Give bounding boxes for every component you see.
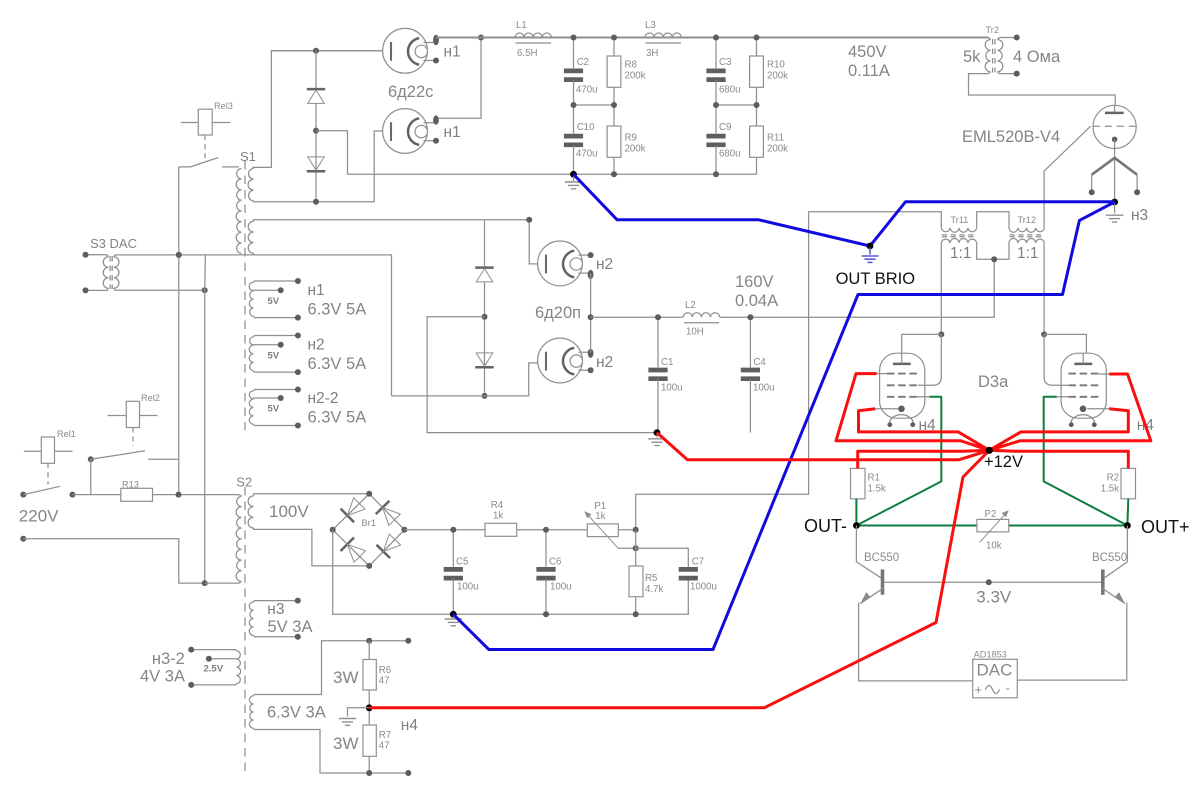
svg-text:3W: 3W [333, 734, 359, 753]
svg-text:C4: C4 [753, 357, 766, 368]
wire P1 output row [618, 529, 635, 531]
svg-text:н2: н2 [596, 256, 613, 273]
node OUT BRIO star ground [867, 243, 874, 250]
svg-text:47: 47 [379, 741, 390, 752]
node OUT+ [1124, 522, 1131, 529]
ground symbol OUT BRIO (blue) [869, 248, 871, 255]
resistor R6 47 3W [368, 641, 370, 660]
wire S1 HV2 bottom lead joining mains-side line [253, 253, 255, 255]
wire rectifier output row to lower 6д20п cathode [392, 363, 546, 396]
svg-text:1k: 1k [595, 511, 605, 522]
transformer S1 HV secondary 1 [248, 168, 253, 201]
wire red +12V from н4 node to star node [369, 450, 989, 708]
relay Rel2 [108, 393, 160, 446]
resistor R10 200k [756, 38, 758, 57]
wire red star to right D3a grid1 [989, 374, 1151, 450]
node S2 primary bottom junction [202, 580, 208, 586]
wire red star to R1 [858, 450, 990, 468]
wire Tr11 secondary left down to D3a left anode junction [940, 243, 942, 334]
anode bar of EML520B [1105, 112, 1124, 115]
transformer S1 filament winding н2-2 6.3V 5A with 5V tap [249, 391, 253, 425]
wire from diode junction to anode wire of lower tube [316, 131, 348, 175]
svg-text:3W: 3W [333, 668, 359, 687]
svg-text:R5: R5 [645, 573, 657, 584]
wire Q2 emitter down to DAC [1017, 603, 1127, 681]
node P1 output junction [633, 527, 639, 533]
wire cathode lead down to н3 node [1114, 139, 1116, 202]
ground symbol at н4 divider [348, 708, 370, 717]
wire Tr2 secondary pins [997, 38, 1016, 40]
resistor R4 1k [485, 523, 517, 536]
wire R13 to S2 primary [153, 494, 239, 496]
wire green R2 bottom to OUT+ [1126, 499, 1129, 526]
svg-text:S3 DAC: S3 DAC [90, 236, 137, 251]
svg-text:R8: R8 [625, 60, 637, 71]
wire audio input from P1 wiper box up to Tr11 [636, 212, 942, 530]
svg-text:220V: 220V [19, 507, 59, 526]
svg-text:C2: C2 [577, 57, 589, 68]
heater Y of EML520B [1092, 158, 1137, 175]
svg-text:6.5H: 6.5H [517, 48, 537, 59]
wire g3 stub to green output right D3a [1057, 396, 1069, 398]
node junction on cathode feed at diode column [313, 48, 319, 54]
svg-text:R1: R1 [868, 473, 880, 484]
wire connecting both 6д20п plates to 160V line [590, 273, 592, 352]
wire g3 stub to green output left D3a [917, 396, 930, 398]
transformer S2 winding н3 5V 3A [249, 602, 253, 636]
svg-text:S1: S1 [240, 149, 256, 164]
svg-text:6.3V 5A: 6.3V 5A [308, 301, 367, 319]
wire R6 to R7 through н4 node [368, 690, 370, 725]
svg-text:AD1853: AD1853 [974, 650, 1007, 660]
capacitor C7 1000u [679, 567, 698, 572]
svg-text:6д20п: 6д20п [535, 304, 581, 322]
svg-text:10H: 10H [686, 327, 704, 338]
svg-text:R4: R4 [491, 500, 504, 511]
wire Tr2 primary bottom to EML anode [969, 72, 1116, 106]
wire cathode stub left D3a [875, 408, 898, 410]
grid dashed line of EML520B [1093, 125, 1137, 127]
wire red from 160V ground node to star node [657, 433, 989, 460]
capacitor C6 100u [545, 530, 547, 567]
svg-text:R7: R7 [379, 730, 391, 741]
wire anode tap into right D3a [1044, 334, 1086, 353]
svg-text:3H: 3H [646, 48, 658, 59]
wire junction to ground row [427, 317, 657, 433]
svg-text:R9: R9 [625, 133, 637, 144]
svg-text:+12V: +12V [984, 453, 1023, 471]
wire riser from S1 HV winding to top rail [252, 51, 391, 168]
svg-text:н1: н1 [444, 44, 461, 61]
potentiometer P1 1k [587, 524, 618, 537]
svg-text:C5: C5 [456, 557, 468, 568]
node 160V takeoff [588, 314, 594, 320]
node P1 wiper junction [633, 545, 639, 551]
resistor R8 200k [613, 38, 615, 57]
resistor R13 [121, 488, 153, 501]
wire S1 HV1 bottom lead to rectifier and lower 6д22с cathode [254, 131, 392, 202]
wire 160V line after L2 to interstage center tap [720, 259, 995, 317]
svg-text:OUT+: OUT+ [1141, 517, 1190, 537]
svg-text:5V: 5V [268, 404, 280, 415]
svg-text:Tr2: Tr2 [986, 25, 999, 35]
svg-text:н3: н3 [267, 601, 284, 618]
svg-text:5V: 5V [268, 296, 280, 307]
svg-text:C6: C6 [549, 557, 561, 568]
node HV ground [570, 171, 577, 178]
wire cathode stub right D3a [1087, 408, 1109, 410]
switch S1 mains switch [179, 149, 256, 167]
diode D upper of 6д20п rectifier pair [484, 220, 486, 267]
transformer S2 winding 6.3V 3A [249, 696, 253, 729]
node н3 cathode ground [1111, 199, 1118, 206]
ground symbol HV filter [573, 174, 575, 181]
svg-text:OUT-: OUT- [804, 516, 847, 536]
inductor L3 3H [645, 33, 681, 38]
svg-text:0.11A: 0.11A [848, 62, 890, 80]
node junction at HV1 bottom lead [313, 199, 319, 205]
wire Rel2 contact down to mains line [90, 459, 92, 494]
resistor R1 1.5k [851, 468, 866, 498]
wire Tr11 top-right to Tr12 top-left bridge [977, 212, 1009, 228]
svg-text:R10: R10 [767, 60, 785, 71]
wire grid lead to Tr12 [1044, 126, 1091, 227]
wire P1 wiper tail [618, 547, 635, 549]
node R7 bottom junction and pin [368, 756, 370, 773]
wire base rail 3.3V [884, 581, 1101, 583]
svg-text:C7: C7 [692, 557, 704, 568]
wire 100V top lead to bridge [254, 494, 370, 496]
node 160V ground [654, 429, 661, 436]
wire wiper row to C7 [636, 548, 689, 567]
wire screen grid lead right D3a [1044, 334, 1068, 385]
svg-text:C3: C3 [719, 57, 731, 68]
wire green from right D3a g3 down to OUT+ [1044, 397, 1128, 526]
wire S1 primary bottom lead [179, 254, 242, 256]
wire Q1 emitter down to DAC [859, 603, 973, 681]
resistor R2 1.5k [1121, 468, 1136, 498]
wire 220V line to R13 [70, 492, 76, 498]
svg-text:н1: н1 [444, 124, 461, 141]
svg-text:6.3V 5A: 6.3V 5A [308, 355, 367, 373]
vacuum tube V4 6д20п (upper) [538, 241, 583, 286]
svg-text:5k: 5k [963, 48, 981, 66]
cathode dot of EML520B [1112, 137, 1118, 143]
node center tap [991, 256, 997, 262]
wire blue HV ground link from C10 ground to OUT BRIO ground [574, 174, 871, 246]
wire junction column to R5 [635, 530, 637, 566]
svg-text:S2: S2 [236, 475, 252, 490]
inductor L1 6.5H [515, 33, 551, 38]
svg-text:Rel3: Rel3 [214, 101, 233, 111]
vacuum tube V6 D3a (left) [880, 353, 925, 418]
svg-text:Br1: Br1 [362, 518, 376, 528]
svg-text:н1: н1 [308, 282, 325, 299]
transformer S2 core [244, 487, 246, 772]
svg-text:D3a: D3a [978, 373, 1009, 391]
svg-text:470u: 470u [576, 149, 598, 160]
svg-text:10k: 10k [986, 541, 1002, 552]
potentiometer P2 10k [977, 519, 1009, 532]
transformer S1 filament winding н2 6.3V 5A with 5V tap [249, 337, 253, 371]
svg-text:C10: C10 [577, 122, 595, 133]
svg-text:4.7k: 4.7k [645, 584, 663, 595]
svg-text:4 Ома: 4 Ома [1013, 48, 1061, 66]
wire top-left feed line to first 6д22с cathode [271, 50, 391, 52]
svg-text:450V: 450V [848, 43, 887, 61]
wire green R1 bottom to OUT- [855, 499, 857, 526]
svg-text:680u: 680u [719, 85, 741, 96]
svg-text:47: 47 [379, 676, 390, 687]
svg-text:Tr11: Tr11 [951, 215, 969, 225]
node anode junction right D3a [1041, 331, 1047, 337]
capacitor C3 680u [715, 38, 717, 69]
svg-text:DAC: DAC [977, 661, 1013, 680]
wire green P2 to OUT+ [1009, 525, 1128, 527]
wire Tr11/Tr12 bottom center tap [977, 243, 1009, 259]
node anode junction left D3a [938, 331, 944, 337]
svg-text:100u: 100u [661, 383, 683, 394]
svg-text:R2: R2 [1107, 473, 1119, 484]
transformer S1 filament winding н1 6.3V 5A with 5V tap [249, 282, 253, 316]
svg-text:160V: 160V [735, 273, 774, 291]
wire red star to left D3a grid1 [836, 374, 989, 451]
svg-text:0.04A: 0.04A [735, 292, 778, 310]
wire S3 secondary bottom lead to S2 feed bus [114, 288, 205, 290]
wire red star to left D3a cathode [859, 409, 990, 451]
transformer S2 primary [236, 496, 241, 581]
resistor R9 200k [613, 105, 615, 126]
vacuum tube V5 6д20п (lower) [538, 338, 583, 383]
wire 450V B+ rail [436, 37, 988, 39]
svg-text:C1: C1 [661, 357, 673, 368]
svg-text:R6: R6 [379, 665, 391, 676]
svg-text:н4: н4 [401, 717, 419, 734]
transformer S1 core [244, 161, 246, 430]
ground symbol at C5 [445, 619, 462, 626]
capacitor C9 680u [715, 105, 717, 134]
capacitor C4 100u [749, 317, 751, 367]
node OUT- [853, 522, 860, 529]
svg-text:BC550: BC550 [864, 552, 899, 564]
diode D lower of 6д20п rectifier pair [475, 366, 493, 369]
wire vertical bus x=205 down to S2 primary [204, 255, 207, 583]
node C5 ground (blue reference) [450, 611, 457, 618]
wire anode tap into left D3a [902, 334, 942, 353]
svg-text:н2-2: н2-2 [308, 390, 339, 407]
relay Rel1 [24, 429, 76, 485]
node junction between rectifier diodes [482, 314, 488, 320]
wire green from left D3a g3 down to OUT- [856, 397, 941, 526]
svg-text:н3: н3 [1131, 207, 1148, 224]
svg-text:6.3V 5A: 6.3V 5A [308, 409, 367, 427]
node R6 top junction and pin [366, 638, 372, 644]
svg-text:R13: R13 [122, 480, 139, 490]
wire red star to right D3a cathode [989, 409, 1128, 451]
transformer S1 HV secondary 2 [248, 221, 253, 253]
wire R4 to P1 [517, 529, 588, 531]
diode D lower (pointing down) [307, 170, 325, 173]
svg-text:200k: 200k [625, 144, 646, 155]
wire V2 anode pin up to 450V rail [438, 38, 481, 119]
svg-text:Rel1: Rel1 [57, 429, 76, 439]
node lower rectifier output [482, 393, 488, 399]
node н4 heater supply junction [366, 704, 373, 711]
switch Rel2 contact [88, 456, 94, 462]
wire control grid stub right D3a [1099, 373, 1110, 375]
wire red star to R2 [989, 450, 1128, 468]
wire blue from н3 node to C5 ground [453, 202, 1114, 650]
switch Rel1 contact on 220V line [20, 492, 26, 498]
wire blue from OUT BRIO ground to н3 node [870, 202, 1115, 246]
svg-text:н3-2: н3-2 [152, 650, 185, 668]
node junction left bus at R13 row [176, 492, 182, 498]
svg-text:5V: 5V [268, 350, 280, 361]
wire 6.3V top lead up to R6 row [254, 641, 409, 696]
wire middle junction row C3/C9/R10/R11 [716, 104, 757, 106]
resistor R7 47 3W [363, 725, 376, 756]
svg-text:100u: 100u [457, 582, 479, 593]
resistor R11 200k [756, 105, 758, 126]
svg-text:C9: C9 [719, 122, 731, 133]
svg-text:6д22с: 6д22с [388, 83, 433, 101]
wire bridge minus to ground rail [333, 530, 689, 615]
svg-text:1000u: 1000u [690, 582, 717, 593]
node +12V star [986, 447, 993, 454]
wire S3 primary leads with pins [86, 255, 109, 257]
svg-text:1k: 1k [493, 511, 503, 522]
capacitor C5 100u [452, 530, 454, 567]
svg-text:EML520B-V4: EML520B-V4 [962, 128, 1060, 146]
svg-text:R11: R11 [767, 133, 784, 144]
wire HV2 bottom lead continuation down to lower rectifier row [242, 255, 392, 396]
wire 100V bottom lead to bridge [254, 528, 370, 566]
svg-text:680u: 680u [719, 149, 741, 160]
vacuum tube V1 6д22с (upper) [383, 28, 428, 73]
ground symbol н3 [1106, 215, 1123, 222]
svg-text:5V 3A: 5V 3A [268, 618, 313, 636]
relay Rel3 [181, 101, 233, 160]
svg-text:1.5k: 1.5k [868, 484, 886, 495]
capacitor C2 470u [573, 38, 575, 69]
svg-text:6.3V 3A: 6.3V 3A [267, 704, 326, 722]
diode D upper (6д22с column) [315, 51, 317, 88]
svg-text:4V 3A: 4V 3A [140, 668, 185, 686]
capacitor C10 470u [573, 105, 575, 134]
wire left vertical bus (switched mains) [178, 167, 180, 495]
svg-text:+: + [975, 682, 983, 697]
svg-text:1.5k: 1.5k [1101, 484, 1119, 495]
svg-text:2.5V: 2.5V [204, 664, 224, 675]
wire Tr12 secondary right down to D3a right anode junction [1043, 243, 1045, 334]
capacitor C1 100u [657, 317, 659, 367]
wire bridge plus to filter row [404, 529, 485, 531]
svg-text:100u: 100u [550, 582, 572, 593]
wire screen grid lead left D3a [918, 334, 941, 385]
svg-text:Tr12: Tr12 [1018, 215, 1037, 225]
wire S3 secondary top lead to mains bus [114, 255, 179, 257]
wire 220V return line [20, 536, 26, 542]
svg-text:L1: L1 [516, 20, 527, 31]
vacuum tube V2 6д22с (lower) [383, 109, 428, 154]
wire middle junction row C2/C10/R8/R9 [574, 104, 615, 106]
vacuum tube V7 D3a (right) [1061, 353, 1106, 418]
resistor R5 4.7k [629, 566, 643, 597]
svg-text:Rel2: Rel2 [141, 393, 160, 403]
transformer S2 secondary 100V [248, 496, 253, 528]
svg-text:3.3V: 3.3V [976, 588, 1012, 607]
transformer S2 winding н3-2 4V 3A with 2.5V tap [237, 651, 241, 684]
svg-text:н2: н2 [308, 337, 325, 354]
wire 160V line [591, 316, 684, 318]
node junction S1 primary bottom on mains bus [176, 252, 182, 258]
svg-text:470u: 470u [576, 85, 598, 96]
wire pin capsule of V1 to 450V rail [433, 35, 439, 46]
wire 6.3V bottom lead down to R7 row [254, 728, 409, 773]
svg-text:OUT BRIO: OUT BRIO [836, 270, 916, 288]
node junction between diodes [313, 128, 319, 134]
svg-text:1:1: 1:1 [950, 245, 972, 262]
wire S1 HV2 top lead to upper 6д20п cathode [254, 220, 546, 264]
svg-text:200k: 200k [625, 71, 646, 82]
svg-text:BC550: BC550 [1092, 552, 1127, 564]
bridge rectifier Br1 [333, 494, 370, 530]
svg-text:200k: 200k [767, 144, 788, 155]
transformer S1 primary winding [236, 168, 241, 253]
svg-text:-: - [1006, 681, 1010, 696]
svg-text:L3: L3 [645, 20, 656, 31]
wire green OUT- to P2 [856, 525, 977, 527]
svg-text:100V: 100V [269, 502, 309, 521]
svg-text:200k: 200k [767, 71, 788, 82]
svg-text:P2: P2 [985, 509, 997, 520]
svg-text:100u: 100u [753, 383, 775, 394]
svg-text:L2: L2 [685, 300, 696, 311]
ground symbol 160V filter [648, 439, 665, 446]
wire control grid stub left D3a [877, 373, 887, 375]
wire HV ground return rail [348, 173, 757, 175]
inductor L2 10H [683, 313, 719, 318]
svg-text:1:1: 1:1 [1017, 245, 1039, 262]
svg-text:н2: н2 [596, 354, 613, 371]
